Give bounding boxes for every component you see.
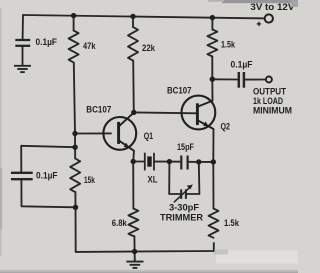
wire 15pF to right node — [188, 161, 199, 163]
wire lower cap loop top — [21, 146, 75, 172]
svg-text:BC107: BC107 — [167, 85, 192, 96]
wire left cap branch — [22, 15, 24, 39]
wire 1.5k to output node — [211, 57, 213, 80]
wire crystal to trimmer split — [154, 161, 169, 163]
wire 22k top lead — [132, 16, 134, 27]
wire left cap to ground — [22, 47, 24, 65]
svg-text:15pF: 15pF — [177, 141, 194, 152]
svg-text:0.1µF: 0.1µF — [36, 36, 58, 47]
node output — [210, 77, 215, 82]
capacitor C2 0.1uF lower-left — [11, 173, 33, 179]
svg-text:6.8k: 6.8k — [112, 217, 128, 228]
wire output node to cap — [212, 78, 237, 80]
wire 22k to Q1 collector node — [132, 61, 135, 113]
scan artifact: smudge after bottom rail corner — [214, 250, 228, 255]
wire trimmer loop right — [186, 162, 199, 194]
wire loop node to 15k — [74, 147, 76, 158]
svg-text:0.1µF: 0.1µF — [231, 59, 253, 70]
scan artifact: top-right gray band — [222, 0, 298, 3]
scan artifact: bottom lighter band — [216, 251, 298, 264]
resistor R 22k — [128, 27, 138, 61]
plus sign — [257, 22, 261, 26]
node trimmer right — [196, 159, 201, 164]
capacitor C4 15pF — [181, 156, 187, 170]
node emitter line / crystal row right — [211, 159, 216, 164]
wire 6.8k to bottom rail — [133, 236, 135, 251]
svg-text:1.5k: 1.5k — [221, 39, 236, 50]
node dots — [71, 13, 216, 254]
trimmer arrow — [174, 185, 193, 203]
wire 47k to base node — [74, 63, 75, 134]
node trimmer split — [167, 159, 172, 164]
ground bottom — [126, 252, 143, 268]
terminal output — [266, 77, 272, 83]
resistor R 1.5k top — [207, 30, 217, 57]
capacitor C1 0.1uF top-left — [15, 40, 30, 46]
svg-text:1.5k: 1.5k — [224, 217, 240, 228]
wire 1.5k bottom top lead — [212, 162, 214, 209]
wire crystal row left — [133, 161, 144, 163]
terminal supply — [265, 14, 273, 22]
wire lower cap loop bottom — [21, 181, 75, 208]
wire Q2 emitter down — [212, 129, 214, 162]
svg-text:47k: 47k — [83, 40, 96, 51]
transistor Q2 BC107 — [182, 96, 216, 130]
wire loop bottom to bottom rail — [75, 207, 77, 252]
svg-text:Q1: Q1 — [144, 130, 153, 141]
scan artifact: left edge — [0, 8, 2, 256]
wire Q1 collector node to Q2 base — [134, 111, 197, 114]
node Q1 base junction — [72, 131, 77, 136]
ground top-left — [14, 66, 31, 72]
node Q1 collector — [131, 110, 136, 115]
node top rail / 22k — [130, 14, 135, 19]
wire trimmer loop left — [169, 162, 181, 194]
wire base node to loop node — [74, 134, 76, 148]
svg-text:BC107: BC107 — [86, 104, 111, 115]
wire bottom rail — [76, 250, 214, 253]
svg-text:XL: XL — [148, 174, 158, 185]
node top rail / 47k — [71, 13, 76, 18]
wire 1.5k top lead — [211, 18, 213, 30]
svg-text:MINIMUM: MINIMUM — [253, 105, 292, 116]
crystal XL — [145, 153, 154, 171]
capacitor C3 0.1uF output coupling — [239, 72, 244, 88]
wire top rail — [23, 15, 265, 18]
svg-text:0.1µF: 0.1µF — [36, 170, 58, 181]
resistor R 15k — [70, 159, 80, 193]
node loop bottom — [73, 205, 78, 210]
wire cap to terminal — [246, 79, 266, 81]
resistor R 6.8k — [128, 209, 138, 237]
wire output node to Q2 collector — [211, 79, 213, 101]
resistor R 47k — [69, 31, 79, 63]
node top rail / 1.5k — [210, 15, 215, 20]
svg-text:15k: 15k — [84, 174, 95, 185]
wire right node to emitter line — [199, 161, 214, 163]
wire 15k to loop bottom node — [74, 192, 76, 207]
wire 6.8k top lead — [132, 162, 134, 209]
node crystal row left — [131, 159, 136, 164]
wire split to 15pF — [169, 161, 181, 163]
wire 1.5k bottom to rail corner — [213, 243, 215, 251]
transistor Q1 BC107 — [103, 113, 136, 151]
wire Q1 base — [75, 132, 111, 134]
trimmer capacitor CT 3-30pF — [181, 189, 186, 199]
node bottom rail / 6.8k — [132, 249, 137, 254]
wire left main line 47k top lead — [73, 16, 75, 31]
svg-text:22k: 22k — [142, 42, 156, 53]
node loop top — [72, 145, 77, 150]
resistor R 1.5k bottom — [209, 209, 219, 238]
svg-text:Q2: Q2 — [221, 121, 231, 132]
svg-text:TRIMMER: TRIMMER — [160, 211, 203, 222]
scan artifact: bottom edge band — [0, 270, 298, 273]
wire Q1 emitter down — [132, 151, 135, 162]
